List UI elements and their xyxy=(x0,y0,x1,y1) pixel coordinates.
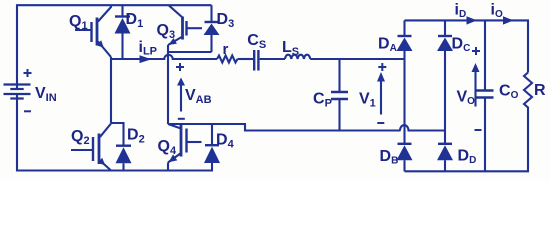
svg-text:r: r xyxy=(223,41,229,58)
svg-text:R: R xyxy=(534,82,546,99)
